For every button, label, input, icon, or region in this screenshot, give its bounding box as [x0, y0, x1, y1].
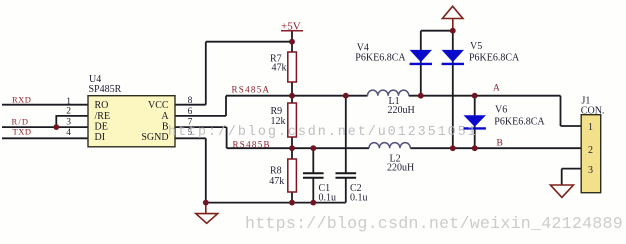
wire into J1 pin1 [561, 125, 582, 127]
svg-text:P6KE6.8CA: P6KE6.8CA [494, 116, 545, 127]
svg-text:3: 3 [588, 165, 593, 176]
svg-text:4: 4 [66, 128, 71, 138]
svg-text:http://blog.csdn.net/u01235105: http://blog.csdn.net/u012351051 [168, 125, 478, 140]
svg-text:0.1u: 0.1u [350, 193, 368, 204]
svg-text:A: A [493, 84, 500, 94]
junction R/D node [53, 124, 59, 130]
wire TXD to pin4 [2, 137, 88, 139]
wire C2 top stub from RS485A [345, 96, 347, 174]
svg-text:220uH: 220uH [387, 163, 414, 174]
wire net B to J1 pin2 [410, 147, 581, 149]
svg-text:2: 2 [588, 145, 593, 156]
junction RS485A R7/R9 [289, 93, 295, 99]
svg-text:R/D: R/D [12, 117, 30, 127]
wire pin7 horizontal [175, 126, 227, 128]
TVS diode V6 [464, 115, 486, 128]
svg-text:6: 6 [188, 107, 193, 117]
wire pin6 riser up to RS485A [225, 96, 227, 116]
svg-text:B: B [497, 138, 503, 148]
ground symbol center bottom [196, 203, 218, 224]
wire R7 bottom stub [291, 82, 293, 103]
svg-text:1: 1 [66, 97, 71, 107]
svg-text:SP485R: SP485R [89, 84, 122, 95]
resistor R8 [288, 159, 297, 192]
wire J1 pin3 jog down to ground [561, 169, 563, 185]
svg-text:P6KE6.8CA: P6KE6.8CA [355, 53, 406, 64]
svg-text:TXD: TXD [13, 126, 32, 136]
inductor L2 [369, 143, 410, 149]
earth power port (triangle up) [442, 6, 463, 31]
svg-text:/RE: /RE [95, 111, 111, 122]
wire V6 riser [474, 96, 476, 149]
wire pin2 stub [56, 115, 88, 117]
TVS diode V5 [442, 50, 464, 64]
svg-text:8: 8 [188, 96, 193, 106]
wire pin5 riser down to ground [205, 138, 207, 202]
svg-text:RXD: RXD [12, 95, 31, 105]
wire net A [409, 95, 561, 97]
wire +5V stem to R7 top [291, 31, 293, 52]
wire V4 riser [420, 31, 422, 96]
svg-text:V6: V6 [495, 105, 507, 116]
wire A jog down to J1 pin1 [560, 96, 562, 126]
capacitor C1 plates [303, 173, 324, 178]
svg-text:47k: 47k [269, 176, 284, 187]
wire pin8 riser up [205, 42, 207, 105]
svg-text:220uH: 220uH [388, 105, 415, 116]
connector J1 body [581, 115, 601, 193]
junction V6 top on A line [472, 93, 478, 99]
svg-text:3: 3 [66, 118, 71, 128]
junction V6 bottom on B line [472, 145, 478, 151]
wire pin7 riser down to RS485B [226, 127, 228, 148]
junction earth bar node [450, 28, 456, 34]
wire C1 bottom stub [312, 178, 314, 203]
ground symbol at J1 pin3 [550, 185, 573, 197]
svg-text:RS485A: RS485A [232, 85, 271, 95]
svg-text:47k: 47k [272, 63, 287, 74]
junction C1 bottom [310, 200, 316, 206]
junction +5V node [289, 39, 295, 45]
junction C2 top on RS485A [343, 93, 349, 99]
wire RXD to pin1 [2, 104, 88, 106]
wire R/D to pin3 [2, 126, 88, 128]
junction RS485B R9/R8 [289, 145, 295, 151]
svg-text:SGND: SGND [141, 132, 168, 143]
svg-text:DE: DE [95, 121, 108, 132]
wire pin2 riser to R/D junction [55, 115, 57, 127]
wire R8 bottom stub [291, 192, 293, 203]
svg-text:2: 2 [66, 106, 71, 116]
svg-text:DI: DI [95, 132, 106, 143]
wire pin6 horizontal [175, 115, 226, 117]
wire pin8 horizontal [175, 104, 206, 106]
svg-text:V5: V5 [470, 41, 482, 52]
wire earth bar [421, 30, 453, 32]
junction C1 top [310, 145, 316, 151]
capacitor C2 plates [336, 173, 357, 178]
svg-text:VCC: VCC [148, 100, 169, 111]
svg-text:CON.: CON. [581, 105, 605, 116]
svg-text:https://blog.csdn.net/weixin_4: https://blog.csdn.net/weixin_42124889 [245, 215, 623, 234]
junction V5 on B line [450, 145, 456, 151]
svg-text:RS485B: RS485B [233, 139, 271, 149]
power port +5V [281, 21, 303, 33]
svg-text:A: A [161, 111, 169, 122]
svg-text:1: 1 [588, 122, 593, 133]
wire net RS485B [227, 147, 369, 149]
IC U4 SP485R body [88, 96, 175, 147]
wire J1 pin3 stub [562, 168, 582, 170]
resistor R7 [288, 52, 297, 82]
svg-text:P6KE6.8CA: P6KE6.8CA [469, 53, 520, 64]
TVS diode V4 [410, 50, 432, 64]
wire net RS485A [226, 95, 368, 97]
inductor L1 [368, 90, 409, 96]
wire pin5 horizontal [175, 137, 206, 139]
svg-text:0.1u: 0.1u [319, 193, 337, 204]
svg-text:RO: RO [95, 100, 109, 111]
wire C2 bottom stub [345, 178, 347, 203]
resistor R9 [288, 103, 297, 137]
junction R8 bottom [289, 200, 295, 206]
wire C1 top stub [312, 148, 314, 173]
junction ground node [203, 200, 209, 206]
junction V4 on A line [418, 93, 424, 99]
wire V5 riser [452, 31, 454, 149]
wire bottom ground bus [206, 202, 346, 204]
wire R9 bottom stub [291, 137, 293, 159]
wire to +5V node [206, 41, 292, 43]
